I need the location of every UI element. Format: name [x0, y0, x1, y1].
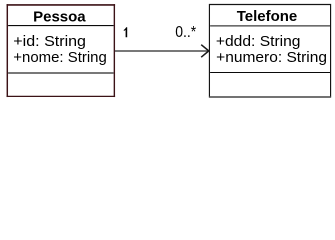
svg-text:Telefone: Telefone [237, 8, 298, 25]
association line Pessoa to Telefone [115, 50, 208, 52]
class box Pessoa: right edge [113, 4, 115, 97]
attribute separator Telefone [210, 72, 330, 74]
svg-text:0..*: 0..* [175, 24, 196, 41]
title separator Telefone [210, 25, 330, 27]
title separator Pessoa [8, 25, 114, 27]
class box Pessoa: top edge [7, 4, 116, 6]
attribute separator Pessoa [8, 72, 114, 74]
svg-text:+numero: String: +numero: String [216, 49, 327, 66]
svg-text:+ddd: String: +ddd: String [216, 33, 301, 50]
class box Pessoa: left edge [6, 4, 8, 97]
multiplicity 1 (Pessoa end), drawn as Arial-style glyph [124, 27, 127, 37]
arrowhead open, pointing right at Telefone [201, 45, 209, 58]
svg-text:+id: String: +id: String [13, 33, 86, 50]
class box Telefone bottom border (gray) [209, 96, 331, 98]
svg-text:+nome: String: +nome: String [13, 49, 107, 66]
class box Pessoa: bottom edge [7, 95, 116, 97]
svg-text:Pessoa: Pessoa [33, 8, 86, 25]
class box Telefone (black top/left/right) [209, 5, 330, 97]
